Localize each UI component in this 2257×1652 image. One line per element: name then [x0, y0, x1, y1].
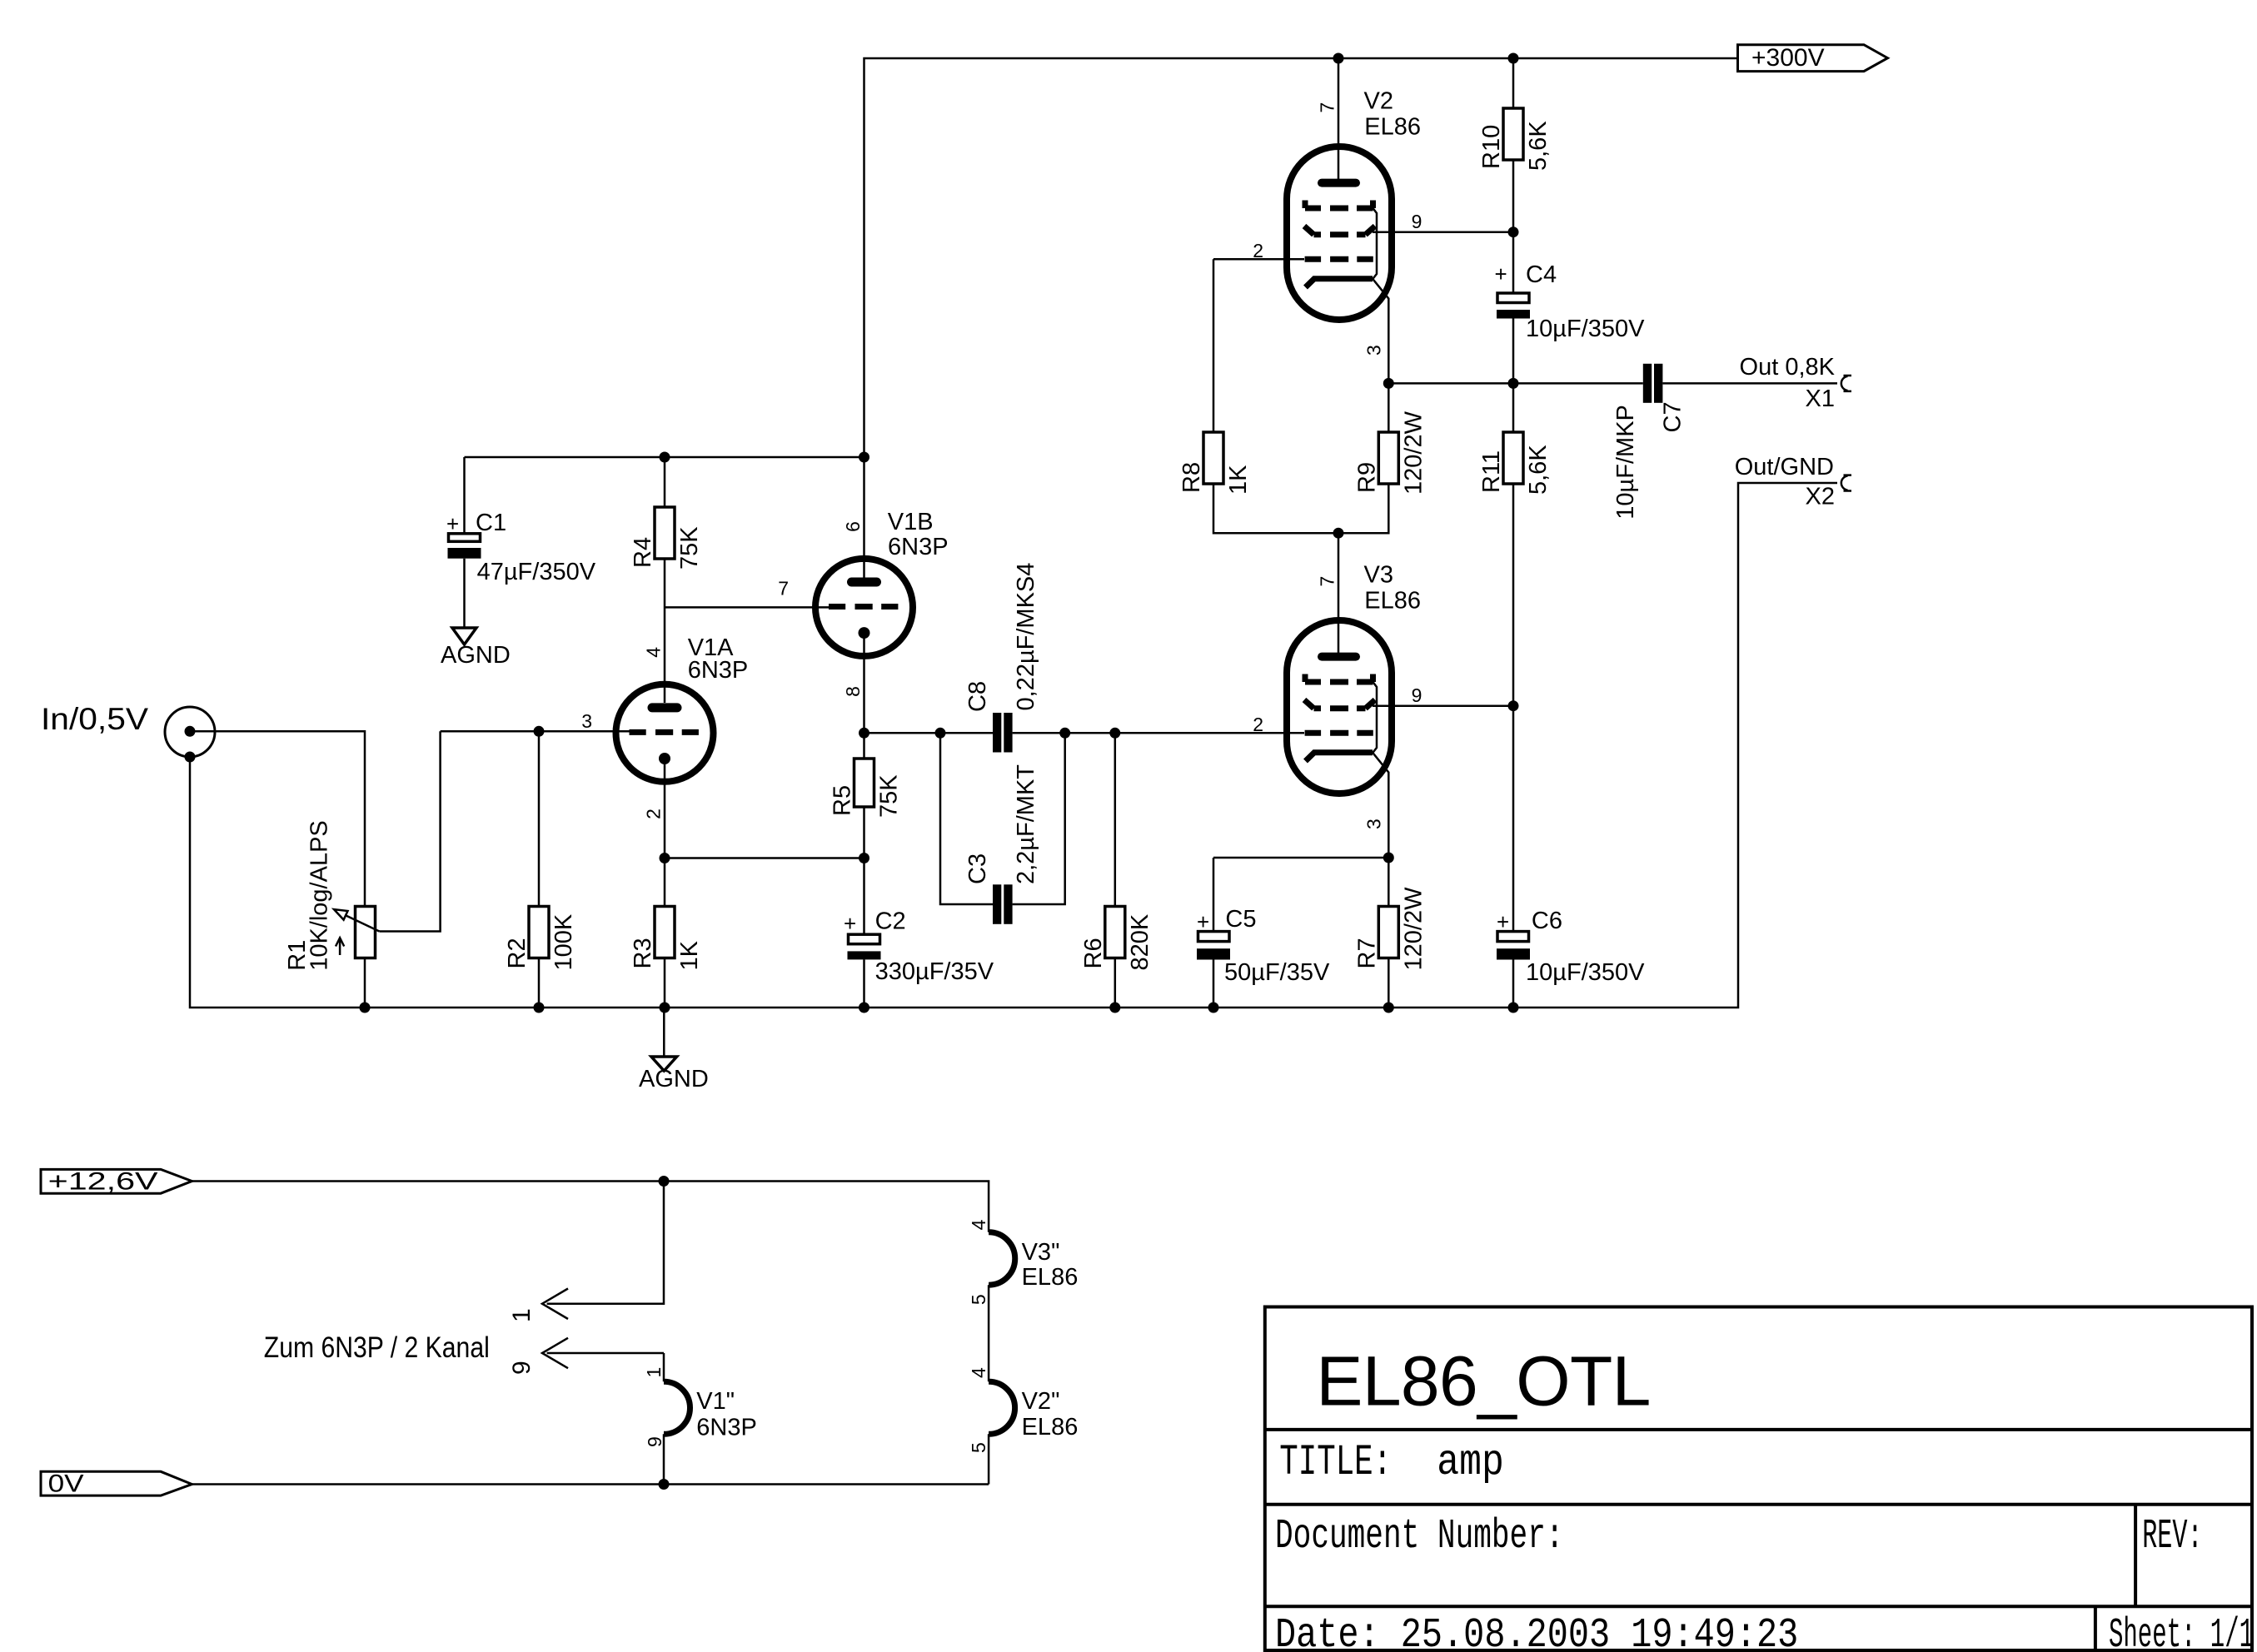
svg-text:1K: 1K — [1225, 465, 1252, 495]
svg-text:+: + — [844, 911, 856, 936]
svg-text:9: 9 — [644, 1436, 665, 1447]
svg-text:C6: C6 — [1532, 908, 1562, 934]
svg-text:R3: R3 — [630, 938, 656, 968]
svg-text:REV:: REV: — [2142, 1513, 2202, 1560]
svg-text:3: 3 — [1363, 345, 1385, 356]
svg-text:1K: 1K — [676, 940, 703, 970]
svg-text:1: 1 — [508, 1308, 536, 1322]
svg-text:TITLE:: TITLE: — [1279, 1438, 1392, 1487]
svg-text:+12,6V: +12,6V — [48, 1168, 158, 1196]
svg-text:R2: R2 — [504, 938, 531, 968]
svg-text:C7: C7 — [1659, 401, 1686, 432]
svg-text:V1B: V1B — [888, 509, 934, 535]
svg-text:C3: C3 — [964, 853, 991, 884]
svg-text:R7: R7 — [1353, 938, 1380, 968]
svg-text:X2: X2 — [1806, 484, 1835, 510]
svg-text:+: + — [1497, 909, 1509, 934]
svg-text:75K: 75K — [876, 774, 903, 818]
svg-text:50µF/35V: 50µF/35V — [1224, 959, 1330, 986]
svg-text:X1: X1 — [1806, 386, 1835, 412]
svg-text:AGND: AGND — [639, 1066, 709, 1092]
svg-text:9: 9 — [1412, 211, 1422, 232]
svg-text:+: + — [1197, 909, 1209, 934]
svg-text:C2: C2 — [875, 908, 906, 934]
svg-text:2: 2 — [1253, 714, 1263, 735]
svg-text:Out 0,8K: Out 0,8K — [1740, 354, 1836, 381]
svg-text:R8: R8 — [1178, 462, 1205, 493]
svg-text:V2: V2 — [1364, 88, 1393, 115]
svg-text:2,2µF/MKT: 2,2µF/MKT — [1013, 764, 1039, 884]
svg-text:R5: R5 — [830, 785, 856, 816]
svg-text:9: 9 — [508, 1361, 536, 1375]
svg-text:R4: R4 — [630, 537, 656, 568]
svg-text:Zum 6N3P / 2 Kanal: Zum 6N3P / 2 Kanal — [264, 1331, 490, 1364]
svg-text:Out/GND: Out/GND — [1735, 454, 1834, 480]
svg-text:8: 8 — [842, 686, 864, 697]
svg-text:Document Number:: Document Number: — [1275, 1513, 1564, 1560]
svg-text:330µF/35V: 330µF/35V — [875, 958, 994, 985]
svg-text:C1: C1 — [476, 510, 506, 536]
svg-text:0,22µF/MKS4: 0,22µF/MKS4 — [1013, 563, 1039, 711]
svg-text:5,6K: 5,6K — [1525, 445, 1552, 495]
svg-text:10K/log/ALPS: 10K/log/ALPS — [306, 820, 332, 971]
svg-text:120/2W: 120/2W — [1400, 887, 1427, 971]
svg-text:5: 5 — [968, 1294, 989, 1305]
svg-text:V3": V3" — [1022, 1239, 1060, 1266]
svg-text:2: 2 — [642, 809, 664, 819]
svg-text:6N3P: 6N3P — [696, 1415, 757, 1441]
svg-text:6N3P: 6N3P — [688, 657, 749, 684]
svg-text:EL86_OTL: EL86_OTL — [1316, 1341, 1651, 1420]
svg-text:47µF/350V: 47µF/350V — [477, 559, 596, 585]
svg-text:10µF/MKP: 10µF/MKP — [1612, 405, 1639, 520]
svg-text:120/2W: 120/2W — [1400, 411, 1427, 495]
svg-text:In/0,5V: In/0,5V — [41, 701, 148, 736]
svg-text:4: 4 — [968, 1219, 989, 1230]
svg-text:C4: C4 — [1526, 261, 1557, 288]
svg-text:3: 3 — [1363, 819, 1385, 829]
svg-text:+300V: +300V — [1751, 44, 1825, 72]
svg-text:+: + — [1495, 261, 1507, 286]
svg-text:100K: 100K — [551, 913, 577, 970]
svg-text:V2": V2" — [1022, 1388, 1060, 1415]
svg-text:EL86: EL86 — [1364, 588, 1421, 615]
svg-text:6: 6 — [842, 521, 864, 532]
svg-text:R10: R10 — [1478, 125, 1505, 169]
svg-text:4: 4 — [968, 1367, 989, 1378]
svg-text:75K: 75K — [676, 526, 703, 570]
svg-text:R9: R9 — [1353, 462, 1380, 493]
svg-text:9: 9 — [1412, 684, 1422, 706]
svg-text:C8: C8 — [964, 681, 991, 712]
svg-text:6N3P: 6N3P — [888, 534, 949, 560]
svg-text:5,6K: 5,6K — [1525, 121, 1552, 171]
svg-text:7: 7 — [778, 578, 789, 600]
svg-text:EL86: EL86 — [1364, 114, 1421, 141]
svg-text:10µF/350V: 10µF/350V — [1526, 316, 1645, 342]
svg-text:Date: 25.08.2003 19:49:23: Date: 25.08.2003 19:49:23 — [1275, 1612, 1798, 1652]
svg-text:7: 7 — [1317, 102, 1338, 113]
svg-text:AGND: AGND — [441, 642, 511, 669]
svg-text:amp: amp — [1437, 1438, 1504, 1487]
svg-text:C5: C5 — [1225, 906, 1256, 933]
svg-text:EL86: EL86 — [1022, 1414, 1079, 1441]
svg-text:+: + — [446, 511, 459, 536]
svg-text:4: 4 — [642, 647, 664, 658]
svg-text:2: 2 — [1253, 240, 1263, 261]
svg-text:7: 7 — [1317, 576, 1338, 587]
svg-text:EL86: EL86 — [1022, 1264, 1079, 1291]
svg-text:1: 1 — [643, 1367, 665, 1378]
svg-text:V1": V1" — [696, 1388, 735, 1415]
svg-text:820K: 820K — [1127, 913, 1153, 970]
svg-text:Sheet: 1/1: Sheet: 1/1 — [2109, 1612, 2254, 1652]
svg-text:V3: V3 — [1364, 562, 1393, 589]
svg-text:0V: 0V — [48, 1470, 84, 1498]
svg-text:3: 3 — [581, 710, 592, 732]
svg-text:R11: R11 — [1478, 450, 1505, 493]
svg-text:5: 5 — [968, 1442, 989, 1453]
svg-text:10µF/350V: 10µF/350V — [1526, 959, 1645, 986]
svg-text:R6: R6 — [1080, 938, 1107, 968]
